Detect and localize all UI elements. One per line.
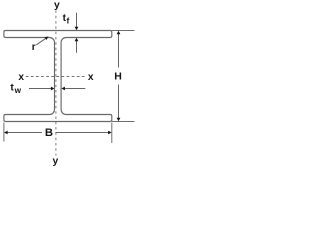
tw dimension: left arrow (points right to web left edge) [29, 88, 51, 90]
centerline x (horizontal dashed) [26, 76, 86, 78]
I-beam cross-section outline [4, 31, 112, 122]
svg-text:w: w [14, 86, 22, 95]
tf dimension: lower arrow (points up to flange bottom) [76, 41, 78, 53]
B dimension extension line (left) [3, 123, 5, 142]
r leader arrow to fillet [36, 38, 46, 45]
svg-text:f: f [67, 16, 70, 26]
svg-text:x: x [18, 72, 24, 83]
B dimension line with gap for label [7, 132, 42, 134]
svg-text:y: y [54, 0, 60, 11]
H arrow up [117, 31, 121, 35]
H dimension extension line (top) [112, 30, 135, 32]
H dimension extension line (bottom) [112, 121, 135, 123]
svg-text:B: B [45, 127, 53, 139]
svg-text:H: H [114, 70, 122, 82]
centerline y (vertical dashed) [55, 11, 57, 156]
B arrow left [4, 131, 8, 135]
B dimension extension line (right) [111, 123, 113, 144]
svg-text:r: r [32, 42, 36, 53]
B arrow right [108, 131, 112, 135]
H dimension line with gap for label [118, 34, 120, 68]
tw dimension: right arrow (points left to web right edge) [65, 88, 86, 90]
svg-text:x: x [88, 72, 94, 83]
tf dimension: upper arrow (points down to flange top) [76, 13, 78, 28]
H arrow down [117, 118, 121, 122]
svg-text:y: y [53, 156, 59, 167]
